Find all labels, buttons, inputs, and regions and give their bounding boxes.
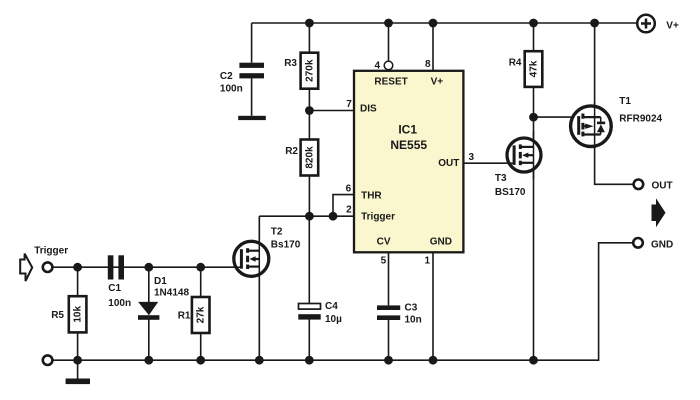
svg-text:1N4148: 1N4148 xyxy=(154,288,189,299)
svg-text:C3: C3 xyxy=(405,303,418,314)
svg-text:R4: R4 xyxy=(509,58,522,69)
svg-text:Trigger: Trigger xyxy=(361,212,395,223)
svg-text:10k: 10k xyxy=(73,306,84,323)
svg-text:R2: R2 xyxy=(285,146,298,157)
svg-text:820k: 820k xyxy=(304,146,315,169)
svg-text:RESET: RESET xyxy=(374,76,407,87)
svg-text:7: 7 xyxy=(346,99,352,110)
svg-text:R1: R1 xyxy=(178,311,191,322)
svg-text:10µ: 10µ xyxy=(325,314,342,325)
svg-text:10n: 10n xyxy=(405,315,422,326)
svg-text:5: 5 xyxy=(381,256,387,267)
svg-text:CV: CV xyxy=(377,237,391,248)
svg-text:RFR9024: RFR9024 xyxy=(619,114,662,125)
svg-text:NE555: NE555 xyxy=(390,138,427,152)
svg-text:IC1: IC1 xyxy=(398,123,417,137)
svg-text:270k: 270k xyxy=(304,59,315,82)
svg-text:C1: C1 xyxy=(108,283,121,294)
svg-text:V+: V+ xyxy=(431,76,444,87)
svg-text:GND: GND xyxy=(430,237,452,248)
svg-text:6: 6 xyxy=(346,183,352,194)
svg-text:R5: R5 xyxy=(51,310,64,321)
svg-text:OUT: OUT xyxy=(652,180,673,191)
svg-text:100n: 100n xyxy=(220,84,243,95)
svg-text:T2: T2 xyxy=(271,227,283,238)
svg-text:3: 3 xyxy=(469,152,475,163)
svg-text:2: 2 xyxy=(346,205,352,216)
svg-text:27k: 27k xyxy=(196,306,207,323)
svg-text:Bs170: Bs170 xyxy=(271,240,301,251)
svg-text:C4: C4 xyxy=(325,301,338,312)
svg-text:BS170: BS170 xyxy=(495,187,526,198)
svg-text:DIS: DIS xyxy=(360,104,377,115)
svg-text:4: 4 xyxy=(374,61,380,72)
svg-text:R3: R3 xyxy=(284,58,297,69)
svg-text:V+: V+ xyxy=(666,20,679,31)
svg-text:T3: T3 xyxy=(495,173,507,184)
svg-text:47k: 47k xyxy=(529,60,540,77)
svg-text:1: 1 xyxy=(424,256,430,267)
svg-text:THR: THR xyxy=(361,191,382,202)
svg-text:D1: D1 xyxy=(154,276,167,287)
svg-text:OUT: OUT xyxy=(438,158,459,169)
svg-text:C2: C2 xyxy=(220,71,233,82)
svg-text:8: 8 xyxy=(425,59,431,70)
svg-text:T1: T1 xyxy=(619,96,631,107)
svg-text:100n: 100n xyxy=(108,298,131,309)
svg-text:Trigger: Trigger xyxy=(34,246,68,257)
svg-text:GND: GND xyxy=(651,239,673,250)
